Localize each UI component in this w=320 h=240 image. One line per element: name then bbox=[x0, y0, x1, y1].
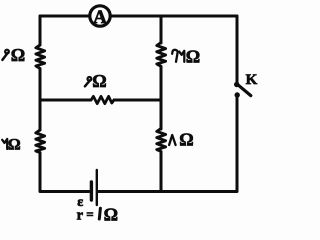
svg-text:Ω: Ω bbox=[186, 46, 200, 66]
label 6 ohm left: digit 6 (Persian) bbox=[2, 50, 8, 60]
wire top bbox=[40, 15, 237, 18]
wire center vertical lower bbox=[160, 152, 163, 191]
wire bottom left of battery bbox=[40, 190, 89, 193]
svg-text:K: K bbox=[246, 72, 258, 88]
label 6 ohm middle: digit 6 (Persian) bbox=[85, 77, 91, 86]
battery short plate bbox=[90, 182, 93, 200]
svg-text:r: r bbox=[77, 207, 84, 223]
svg-text:A: A bbox=[93, 7, 107, 28]
wire center vertical middle bbox=[160, 67, 163, 129]
label 8 ohm: digit 8 (Persian) bbox=[169, 135, 176, 145]
wire left middle bbox=[39, 69, 42, 130]
wire middle horizontal right part bbox=[114, 99, 161, 102]
wire center vertical upper bbox=[160, 16, 163, 43]
resistor R 24ohm bbox=[157, 43, 166, 68]
switch K bottom contact dot bbox=[235, 92, 240, 97]
resistor R 4ohm left bbox=[36, 130, 45, 153]
battery long plate bbox=[96, 170, 98, 205]
svg-text:Ω: Ω bbox=[11, 45, 25, 65]
label digit 1 (Persian) bbox=[99, 208, 100, 219]
wire left lower bbox=[39, 153, 42, 191]
resistor R 6ohm middle bbox=[91, 96, 114, 103]
ammeter A1 circle bbox=[90, 6, 110, 26]
wire left upper bbox=[39, 16, 42, 45]
resistor R 6ohm left bbox=[36, 45, 45, 70]
label 24 ohm: digit 2 (Persian) bbox=[172, 50, 177, 62]
svg-text:Ω: Ω bbox=[104, 204, 118, 224]
svg-text:Ω: Ω bbox=[179, 129, 193, 149]
wire right lower bbox=[236, 97, 239, 191]
svg-text:Ω: Ω bbox=[92, 71, 106, 91]
resistor R 8ohm bbox=[157, 129, 166, 153]
wire middle horizontal bbox=[40, 99, 91, 102]
wire bottom right of battery bbox=[99, 190, 238, 193]
svg-text:=: = bbox=[86, 206, 93, 221]
switch K top contact dot bbox=[234, 82, 239, 87]
svg-text:Ω: Ω bbox=[8, 137, 21, 154]
wire right upper bbox=[236, 16, 239, 83]
switch K blade bbox=[239, 85, 251, 95]
label 24 ohm: digit 4 (Persian) bbox=[179, 51, 184, 62]
label 4 ohm left: digit 4 (Persian) bbox=[2, 139, 7, 149]
